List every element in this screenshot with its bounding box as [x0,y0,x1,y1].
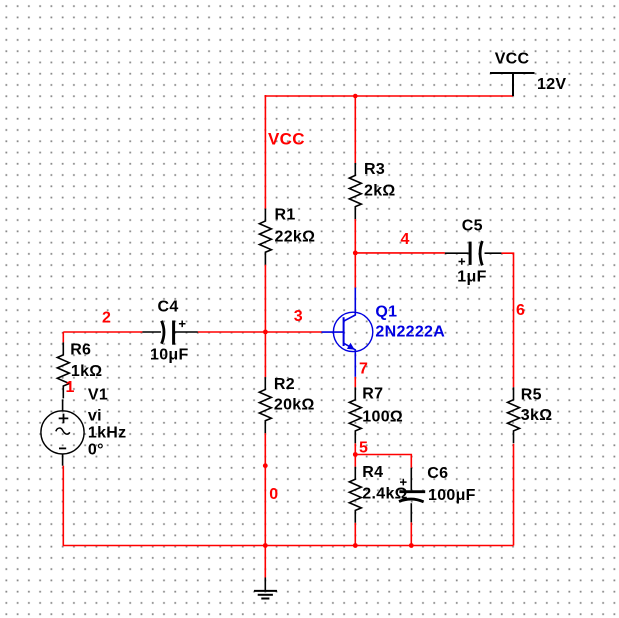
svg-text:0: 0 [269,486,278,503]
svg-text:10μF: 10μF [150,347,189,364]
svg-text:1: 1 [66,379,75,396]
svg-text:C5: C5 [462,218,483,235]
svg-text:R6: R6 [70,342,91,359]
svg-text:0°: 0° [88,442,104,459]
svg-text:R5: R5 [521,387,542,404]
svg-text:1μF: 1μF [457,269,486,286]
svg-text:vi: vi [88,408,102,425]
svg-text:4: 4 [401,231,410,248]
svg-text:R1: R1 [275,206,296,223]
svg-text:100μF: 100μF [428,487,476,504]
svg-text:Q1: Q1 [375,303,397,320]
svg-text:C6: C6 [427,465,448,482]
svg-text:2: 2 [102,310,111,327]
svg-text:3kΩ: 3kΩ [521,407,553,424]
svg-text:R3: R3 [364,161,385,178]
svg-text:2N2222A: 2N2222A [375,323,445,340]
svg-text:VCC: VCC [495,50,530,67]
svg-text:R4: R4 [362,464,383,481]
svg-text:2.4kΩ: 2.4kΩ [362,486,407,503]
svg-text:3: 3 [294,308,303,325]
svg-text:1kΩ: 1kΩ [71,363,103,380]
svg-text:R7: R7 [362,386,383,403]
svg-text:20kΩ: 20kΩ [274,396,315,413]
svg-text:12V: 12V [537,76,566,93]
svg-text:2kΩ: 2kΩ [364,183,396,200]
svg-text:100Ω: 100Ω [362,409,403,426]
svg-text:7: 7 [359,361,368,378]
svg-text:VCC: VCC [268,130,305,149]
svg-text:22kΩ: 22kΩ [275,229,316,246]
svg-text:5: 5 [359,440,368,457]
svg-text:6: 6 [516,302,525,319]
svg-text:C4: C4 [158,299,179,316]
svg-text:R2: R2 [274,376,295,393]
svg-text:1kHz: 1kHz [88,425,127,442]
svg-text:V1: V1 [88,386,108,403]
